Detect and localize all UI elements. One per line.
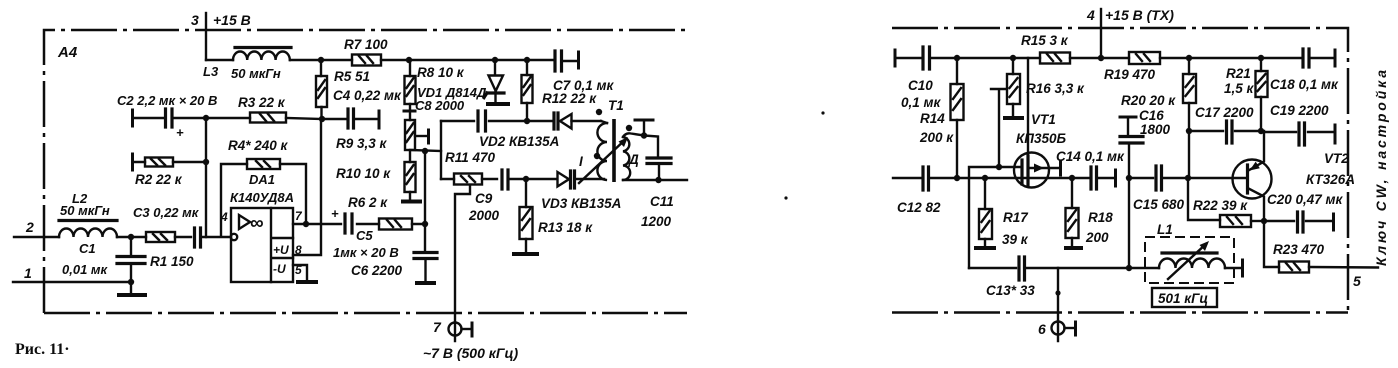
svg-text:∞: ∞ bbox=[250, 213, 264, 234]
resistor R4 (feedback) bbox=[221, 159, 306, 236]
svg-text:R22 39 к: R22 39 к bbox=[1193, 198, 1248, 213]
module A4 dash-dot border (left block) bbox=[44, 30, 688, 313]
zener diode VD1 bbox=[484, 60, 508, 104]
svg-text:R14: R14 bbox=[920, 111, 945, 126]
T1 core bbox=[612, 119, 616, 182]
svg-text:6: 6 bbox=[1038, 321, 1046, 337]
svg-text:3: 3 bbox=[191, 12, 199, 28]
svg-text:R13 18 к: R13 18 к bbox=[538, 220, 593, 235]
svg-text:+U: +U bbox=[273, 243, 289, 257]
svg-text:50 мкГн: 50 мкГн bbox=[60, 203, 110, 218]
node: C9/R13 junction bbox=[523, 176, 529, 182]
resistor R16 bbox=[991, 58, 1020, 167]
resistor R22 bbox=[1220, 215, 1264, 227]
svg-text:C11: C11 bbox=[650, 194, 674, 209]
svg-text:C12 82: C12 82 bbox=[897, 200, 941, 215]
ground (-U pin 5) bbox=[293, 265, 316, 282]
ground (R18) bbox=[1066, 246, 1081, 250]
svg-text:C14 0,1 мк: C14 0,1 мк bbox=[1056, 149, 1125, 164]
node: C1/pin1 junction bbox=[128, 279, 134, 285]
transistor VT2 KT326A bbox=[1233, 131, 1272, 221]
svg-text:~7 В (500 кГц): ~7 В (500 кГц) bbox=[423, 345, 518, 361]
node: C2/R3 junction bbox=[203, 115, 209, 121]
inductor L2 bbox=[59, 221, 117, 238]
capacitor C14 bbox=[1072, 167, 1116, 189]
ground (C1) bbox=[119, 293, 145, 297]
svg-text:2: 2 bbox=[25, 219, 34, 235]
T1 phasing dot primary bbox=[596, 109, 602, 115]
svg-text:200 к: 200 к bbox=[919, 130, 954, 145]
svg-text:C18 0,1 мк: C18 0,1 мк bbox=[1270, 77, 1339, 92]
pin 1 bbox=[13, 265, 131, 282]
wire: C8/VD2 row bbox=[441, 120, 601, 122]
capacitor C2 bbox=[133, 109, 207, 140]
node: L1 junction bbox=[1126, 265, 1132, 271]
svg-text:C20 0,47 мк: C20 0,47 мк bbox=[1267, 192, 1344, 207]
resistor R17 bbox=[979, 178, 992, 246]
svg-text:0,01 мк: 0,01 мк bbox=[62, 262, 109, 277]
resistor R18 bbox=[1066, 178, 1079, 246]
wire: secondary top with stub bbox=[635, 120, 658, 157]
svg-text:VT2: VT2 bbox=[1324, 151, 1349, 166]
svg-text:T1: T1 bbox=[608, 98, 624, 113]
wire: +15V rail top bbox=[206, 59, 554, 61]
svg-text:C19 2200: C19 2200 bbox=[1270, 103, 1329, 118]
svg-text:R17: R17 bbox=[1003, 210, 1029, 225]
svg-text:501 кГц: 501 кГц bbox=[1158, 291, 1208, 306]
wire: C13 feedback line bbox=[969, 267, 1129, 269]
capacitor C7 bbox=[555, 51, 579, 71]
label 501 kHz box bbox=[1152, 288, 1217, 307]
ground (R10) bbox=[403, 200, 420, 204]
capacitor C4 bbox=[322, 109, 379, 128]
svg-text:R6 2 к: R6 2 к bbox=[348, 195, 388, 210]
capacitor C6 bbox=[414, 253, 437, 284]
ground (R13) bbox=[514, 252, 537, 256]
resistor R19 bbox=[1129, 52, 1160, 64]
capacitor C11 bbox=[647, 158, 671, 183]
svg-text:50 мкГн: 50 мкГн bbox=[231, 66, 281, 81]
svg-text:R5 51: R5 51 bbox=[334, 69, 370, 84]
pin 7 connector bbox=[433, 319, 472, 336]
resistor R20 bbox=[1183, 58, 1196, 131]
resistor R21 bbox=[1256, 58, 1268, 131]
svg-text:К140УД8А: К140УД8А bbox=[230, 190, 294, 205]
svg-text:C5: C5 bbox=[356, 228, 373, 243]
svg-text:КТ326А: КТ326А bbox=[1306, 172, 1355, 187]
node: source/C14 junction bbox=[1069, 175, 1075, 181]
pin 2 bbox=[14, 219, 59, 237]
svg-text:C13* 33: C13* 33 bbox=[986, 283, 1035, 298]
svg-text:4: 4 bbox=[220, 210, 228, 224]
capacitor C12 bbox=[923, 167, 929, 190]
varicap VD3 KV135A bbox=[558, 171, 575, 188]
svg-text:200: 200 bbox=[1085, 230, 1109, 245]
svg-text:R3 22 к: R3 22 к bbox=[238, 95, 286, 110]
svg-text:C6 2200: C6 2200 bbox=[351, 263, 403, 278]
svg-text:R2 22 к: R2 22 к bbox=[135, 172, 183, 187]
pin 6 connector bbox=[1038, 268, 1076, 341]
svg-text:R11 470: R11 470 bbox=[445, 150, 496, 165]
resistor R9 bbox=[405, 120, 429, 150]
transformer T1 secondary winding bbox=[623, 133, 687, 180]
right module dash-dot border bbox=[892, 28, 1348, 313]
node: R17 junction bbox=[982, 175, 988, 181]
svg-text:R18: R18 bbox=[1088, 210, 1113, 225]
wire: output tap to pin 7 bbox=[455, 185, 470, 341]
svg-text:R19 470: R19 470 bbox=[1104, 67, 1156, 82]
svg-text:-U: -U bbox=[273, 262, 286, 276]
svg-text:1800: 1800 bbox=[1140, 122, 1171, 137]
svg-text:+15 В: +15 В bbox=[213, 12, 251, 28]
svg-text:39 к: 39 к bbox=[1002, 232, 1029, 247]
svg-text:R10 10 к: R10 10 к bbox=[336, 166, 391, 181]
wire: input line to op-amp bbox=[117, 236, 231, 238]
wire: oscillator bus vertical bbox=[440, 121, 442, 179]
svg-text:2000: 2000 bbox=[468, 208, 500, 223]
svg-text:C3 0,22 мк: C3 0,22 мк bbox=[133, 205, 200, 220]
resistor R14 bbox=[951, 58, 964, 178]
svg-text:C16: C16 bbox=[1139, 108, 1164, 123]
T1 adjust arrow bbox=[579, 139, 626, 183]
wire: gate 2 line bbox=[969, 167, 1022, 268]
resistor R5 bbox=[316, 60, 327, 119]
svg-text:КП350Б: КП350Б bbox=[1016, 131, 1067, 146]
svg-text:A4: A4 bbox=[57, 44, 78, 61]
svg-text:I: I bbox=[579, 154, 583, 169]
resistor R3 bbox=[206, 113, 322, 123]
svg-text:R15 3 к: R15 3 к bbox=[1021, 33, 1069, 48]
svg-text:4: 4 bbox=[1086, 7, 1095, 23]
ground (R16) bbox=[1005, 116, 1022, 120]
svg-text:L3: L3 bbox=[203, 64, 219, 79]
svg-text:R21: R21 bbox=[1226, 66, 1251, 81]
capacitor C15 bbox=[1156, 166, 1162, 190]
resistor R15 bbox=[1040, 53, 1070, 64]
svg-text:L1: L1 bbox=[1157, 222, 1173, 237]
capacitor C5 bbox=[331, 206, 352, 233]
capacitor C13 bbox=[1019, 257, 1025, 280]
wire: +U supply (pin 8) bbox=[293, 119, 321, 255]
node: collector junction bbox=[1261, 218, 1267, 224]
inductor L1 (screened, variable) bbox=[1129, 237, 1243, 283]
capacitor C18 bbox=[1303, 49, 1335, 67]
capacitor C17 bbox=[1227, 121, 1233, 143]
transformer T1 primary winding I bbox=[597, 121, 607, 180]
wire: C9 to T1 primary bottom bbox=[508, 178, 604, 180]
capacitor C9 bbox=[502, 170, 508, 189]
resistor R8 bbox=[404, 60, 416, 120]
wire: inverting input node vertical bbox=[205, 118, 207, 237]
capacitor C20 bbox=[1264, 212, 1334, 232]
svg-text:Д: Д bbox=[628, 152, 639, 167]
svg-text:C2 2,2 мк × 20 В: C2 2,2 мк × 20 В bbox=[117, 93, 217, 108]
node: rail junctions bbox=[318, 57, 530, 63]
svg-text:+15 В (ТХ): +15 В (ТХ) bbox=[1105, 7, 1174, 23]
node: feedback node junction bbox=[422, 148, 428, 154]
node: R12/VD2 junction bbox=[524, 118, 530, 124]
svg-text:C7 0,1 мк: C7 0,1 мк bbox=[553, 78, 615, 93]
resistor R13 bbox=[520, 179, 533, 252]
speck marks bbox=[821, 111, 824, 114]
svg-text:1: 1 bbox=[24, 265, 32, 281]
svg-text:7: 7 bbox=[433, 319, 442, 335]
svg-text:1200: 1200 bbox=[641, 214, 672, 229]
svg-text:VD3 КВ135А: VD3 КВ135А bbox=[541, 196, 621, 211]
resistor R1 bbox=[146, 232, 175, 242]
wire: base bias to R22 bbox=[1188, 178, 1220, 220]
svg-text:1мк × 20 В: 1мк × 20 В bbox=[333, 245, 399, 260]
wire: R20 to emitter node bbox=[1189, 131, 1262, 178]
svg-text:C17 2200: C17 2200 bbox=[1195, 105, 1254, 120]
resistor R11 bbox=[441, 174, 497, 185]
node: output junction bbox=[303, 221, 309, 227]
svg-text:R16 3,3 к: R16 3,3 к bbox=[1026, 81, 1085, 96]
node: R21/C19/emitter junction bbox=[1258, 128, 1264, 134]
svg-text:C8 2000: C8 2000 bbox=[415, 98, 465, 113]
resistor R12 bbox=[522, 60, 533, 121]
node: L2/C1 junction bbox=[128, 234, 134, 240]
resistor R23 bbox=[1264, 221, 1378, 273]
svg-text:1,5 к: 1,5 к bbox=[1224, 81, 1255, 96]
capacitor C16 bbox=[1120, 117, 1143, 268]
svg-text:R4* 240 к: R4* 240 к bbox=[228, 138, 289, 153]
node: R2 junction bbox=[203, 159, 209, 165]
svg-text:R9 3,3 к: R9 3,3 к bbox=[336, 136, 388, 151]
node: R5/R3/C4 junction bbox=[319, 116, 325, 122]
wire: signal line to VT1 bbox=[893, 177, 1072, 179]
capacitor C10 bbox=[895, 47, 930, 69]
svg-text:+: + bbox=[176, 125, 184, 140]
varicap VD2 KV135A bbox=[554, 113, 572, 129]
op-amp DA1 K140UD8A bbox=[231, 208, 293, 282]
node: C16/C15 junction bbox=[1126, 175, 1132, 181]
svg-text:R7 100: R7 100 bbox=[344, 37, 388, 52]
wire: line to VT2 base bbox=[1129, 177, 1247, 179]
wire: R9/R10 junction to bus bbox=[410, 150, 441, 151]
transistor VT1 KP350B bbox=[1014, 58, 1061, 188]
inductor L3 bbox=[233, 48, 291, 61]
capacitor C8 bbox=[478, 111, 486, 131]
pin 3 bbox=[191, 12, 206, 60]
node: R14/gate junction bbox=[954, 175, 960, 181]
capacitor C1 bbox=[117, 237, 145, 293]
wire: bias rail bbox=[896, 57, 1333, 59]
svg-text:R1 150: R1 150 bbox=[150, 254, 194, 269]
T1 phasing dot secondary bbox=[626, 125, 632, 131]
svg-text:Рис. 11·: Рис. 11· bbox=[15, 341, 70, 358]
svg-text:5: 5 bbox=[1353, 273, 1361, 289]
svg-text:0,1 мк: 0,1 мк bbox=[901, 95, 942, 110]
T1 phasing dot primary bottom bbox=[594, 153, 600, 159]
svg-text:R12 22 к: R12 22 к bbox=[542, 91, 597, 106]
node: R20/C17 junction bbox=[1186, 128, 1192, 134]
resistor R7 bbox=[352, 55, 381, 66]
svg-text:C1: C1 bbox=[79, 241, 96, 256]
resistor R10 bbox=[405, 151, 416, 200]
svg-text:DA1: DA1 bbox=[249, 172, 275, 187]
svg-text:R20 20 к: R20 20 к bbox=[1121, 93, 1176, 108]
svg-text:Ключ CW, настройка: Ключ CW, настройка bbox=[1373, 70, 1389, 266]
wire: op-amp output row bbox=[293, 223, 425, 225]
svg-text:VT1: VT1 bbox=[1031, 112, 1056, 127]
pin 4 bbox=[1086, 7, 1101, 58]
resistor R6 bbox=[379, 219, 412, 230]
ground (R17) bbox=[976, 246, 994, 250]
node: R6/C6 junction bbox=[422, 221, 428, 227]
svg-text:C9: C9 bbox=[475, 191, 493, 206]
capacitor C3 bbox=[195, 228, 201, 247]
svg-text:R8 10 к: R8 10 к bbox=[417, 65, 465, 80]
node: rail junctions right bbox=[954, 55, 1264, 61]
svg-text:C15 680: C15 680 bbox=[1133, 197, 1185, 212]
svg-text:C4 0,22 мк: C4 0,22 мк bbox=[333, 88, 402, 103]
svg-text:VD2 КВ135А: VD2 КВ135А bbox=[479, 134, 559, 149]
node: gate 2 junction bbox=[996, 164, 1002, 170]
capacitor C19 bbox=[1262, 123, 1335, 145]
svg-text:C10: C10 bbox=[908, 78, 933, 93]
wire: R6/C6 node vertical bbox=[424, 151, 426, 251]
svg-text:+: + bbox=[331, 206, 339, 221]
resistor R2 bbox=[133, 154, 207, 170]
svg-text:R23 470: R23 470 bbox=[1273, 242, 1325, 257]
node: R20/C15 junction bbox=[1185, 175, 1191, 181]
